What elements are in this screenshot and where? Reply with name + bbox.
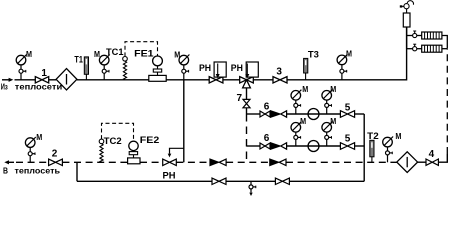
regulator valve PH3 [163,159,177,165]
valve 7 (vertical) [243,99,250,107]
wire branch to radiator upper [417,35,422,37]
pump P2 (lower) [308,141,319,152]
wire pump line lower [247,145,261,147]
svg-text:M: M [330,117,336,126]
wire supply main line segment C [77,79,149,81]
svg-text:FE1: FE1 [134,48,154,59]
filter F2 (strainer diamond) [397,152,418,173]
check valve upper pump line [271,111,287,117]
svg-text:FE2: FE2 [140,135,160,146]
svg-text:6: 6 [264,133,270,144]
filter F1 (strainer diamond) [56,69,77,90]
wire signal dashed TC1 to FE1 [125,42,158,57]
top-right heating system connection [400,1,448,53]
manometer M1 on supply inlet [16,55,26,80]
svg-text:РН: РН [163,170,176,181]
wire left riser of bottom line [76,162,78,181]
wire radiator 1 to return riser [442,36,447,49]
wire supply main line segment B [49,79,56,81]
regulator valve PH2 (three-way) [240,62,259,88]
svg-text:TC1: TC1 [106,47,124,58]
svg-text:M: M [302,85,308,94]
svg-text:теплосеть: теплосеть [15,166,61,175]
thermometer T1 [84,57,88,80]
bottom drain line components [212,178,289,196]
wire radiator return riser dashed [446,49,448,154]
return line (dashed) [4,49,447,172]
manometer pump upper line discharge [322,90,332,114]
valve 4 [426,159,438,165]
wire return segment G [418,161,426,163]
flow transmitter FE1 [149,56,166,81]
valve 5 lower [340,143,354,150]
manometer M3 on supply before PH1 [179,55,189,80]
svg-text:M: M [300,117,306,126]
check valve return A [210,159,226,165]
wire return dashed segment C [140,161,163,163]
svg-text:В: В [3,166,8,175]
valve 1 [35,77,48,83]
svg-text:M: M [346,49,352,58]
pump P1 (upper) [308,109,319,120]
svg-text:T2: T2 [367,131,379,142]
svg-text:T1: T1 [74,54,83,65]
wire return dashed segment A [16,161,49,163]
wire branch to radiator lower [417,48,422,50]
check valve lower pump line [271,143,287,149]
svg-text:M: M [94,50,100,59]
drain cock with spout [249,181,256,196]
thermowell TC2 (resistance sensor) [99,139,104,162]
radiator valve lower [413,44,417,51]
svg-text:РН: РН [199,63,211,74]
svg-text:M: M [395,132,401,141]
wire supply main line segment D [166,79,209,81]
svg-text:M: M [26,50,32,59]
wire pump line upper [247,113,261,115]
regulator valve PH1 [209,62,226,83]
thermometer T2 [370,140,374,162]
wire return dashed segment F [286,161,397,163]
manometer on return (right) [383,137,393,163]
wire return dashed segment D [176,161,210,163]
check valve return B [270,159,286,165]
wire drop from PH2 to valve 7 [246,88,248,100]
valve 2 [49,159,63,165]
pump circuit [77,109,364,182]
wire supply main line segment A [15,79,36,81]
valve on bottom line right [275,178,289,184]
svg-text:теплосети: теплосети [15,83,62,92]
svg-text:6: 6 [264,101,270,112]
wire drop valve7 to pump header [246,108,248,114]
valve 3 [273,77,287,83]
svg-text:4: 4 [429,149,435,160]
manometer pump upper line suction [291,90,301,114]
wire signal dashed TC2 to FE2 [102,123,134,141]
svg-text:5: 5 [345,134,351,145]
svg-text:M: M [330,85,336,94]
svg-text:7: 7 [237,93,243,104]
svg-text:2: 2 [52,148,58,159]
wire return dashed segment B [62,161,127,163]
wire supply main line segment F [253,79,273,81]
svg-text:Из: Из [1,83,8,92]
wire return corner to radiator riser [438,154,447,162]
wire dashed drop through pump suction header [246,114,248,162]
manometer M4 on supply outlet [337,54,347,80]
wire radiator 2 to return riser [442,48,447,50]
valve 6 upper [260,111,270,117]
wire supply main line segment E [223,79,240,81]
wire stem tank to riser [406,27,408,36]
manometer pump lower line discharge [322,122,332,146]
manometer on return (left) [25,137,35,162]
valve 6 lower [260,143,270,149]
svg-text:3: 3 [276,66,282,77]
wire impulse line to PH3 actuator [168,148,184,157]
wire return dashed segment E [226,161,270,163]
svg-text:5: 5 [345,103,351,114]
svg-text:M: M [36,133,42,142]
flow transmitter FE2 [128,141,140,164]
svg-text:1: 1 [41,68,47,79]
svg-text:TC2: TC2 [104,136,122,147]
wire radiator branch lower [406,36,408,49]
air vent cock [400,1,414,13]
wire supply main line segment G with riser up [287,27,407,80]
wire bottom drain line [77,180,364,182]
valve 5 upper [340,111,354,118]
wire bypass drop from supply to return [183,80,185,163]
thermowell TC1 (resistance sensor) [123,57,128,80]
svg-text:РН: РН [231,63,243,74]
thermometer T3 [304,58,308,79]
svg-text:T3: T3 [308,50,319,61]
wire radiator branch upper [407,35,413,37]
radiator 2 [422,45,442,52]
air collector tank [403,13,410,27]
valve on bottom line left [212,178,226,184]
wire supply inlet arrow [2,78,13,82]
radiator valve upper [413,31,417,38]
manometer M2 on supply after filter [99,55,109,80]
svg-text:M: M [174,51,180,60]
radiator 1 [422,32,442,39]
wire return outlet arrow [4,160,14,164]
wire pump discharge header [363,114,365,181]
manometer pump lower line suction [291,122,301,146]
